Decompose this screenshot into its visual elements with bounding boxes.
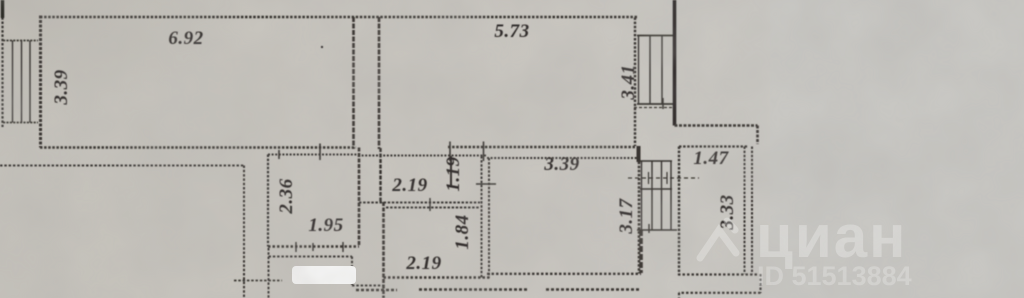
tick window top bottom — [662, 98, 664, 109]
wall loggia right double — [745, 147, 753, 275]
wall vertical x383.5 — [382, 202, 385, 298]
redaction white box — [292, 266, 356, 284]
wall lower-left vertical x352 — [351, 257, 353, 286]
svg-text:6.92: 6.92 — [168, 28, 203, 49]
svg-text:1.19: 1.19 — [443, 156, 464, 191]
wall room 3.39 right — [638, 158, 641, 274]
wall niche 1.19 — [450, 156, 452, 186]
tick door 3.39 left — [476, 183, 496, 185]
tick door corridor top — [450, 142, 484, 162]
wall room 3.39 bottom — [487, 273, 641, 275]
tick door 1.84 top — [429, 198, 431, 211]
wall vertical x380.5 connector — [379, 148, 381, 203]
svg-text:1.84: 1.84 — [452, 214, 473, 249]
svg-text:3.17: 3.17 — [616, 197, 637, 234]
tick window mid bottom — [648, 224, 650, 233]
wall room 2.19 bottom — [384, 276, 491, 278]
speck — [321, 46, 323, 48]
svg-text:1.95: 1.95 — [308, 215, 343, 236]
ticks 1.95 bottom — [296, 242, 343, 252]
watermark cian logo icon — [700, 221, 736, 258]
window top-right mullions — [639, 36, 663, 105]
wall lower-left horizontal y256 — [269, 256, 353, 258]
window left balcony frame — [3, 41, 38, 123]
dim ticks on dashed line — [649, 172, 668, 184]
wall room 1.95 bottom — [268, 245, 359, 247]
svg-text:2.36: 2.36 — [276, 178, 297, 214]
wall middle vertical right line — [378, 17, 381, 149]
wall loggia foot — [679, 274, 761, 298]
window left balcony mullions — [13, 41, 31, 123]
svg-text:ID 51513884: ID 51513884 — [757, 261, 912, 291]
svg-text:3.41: 3.41 — [618, 64, 639, 100]
svg-text:2.19: 2.19 — [391, 175, 427, 196]
svg-text:2.19: 2.19 — [405, 253, 441, 274]
wall stub below window — [639, 230, 643, 273]
wall unit boundary vertical — [243, 166, 245, 298]
wall room bottoms upper line — [40, 146, 637, 149]
tick door 2.36 top — [279, 144, 320, 161]
window top-right lower dash — [634, 107, 674, 109]
wall room 3.39 left double — [482, 156, 490, 278]
wall stub above window — [637, 146, 641, 162]
wall lower floor segment a — [356, 289, 397, 292]
svg-text:3.39: 3.39 — [51, 69, 72, 105]
wall balcony outer left — [1, 0, 3, 127]
wall lower floor segment b — [419, 288, 527, 291]
wall room 1.84 top — [386, 207, 480, 209]
window mid-right frame — [637, 161, 677, 230]
wall loggia 1.47 left — [678, 147, 680, 276]
wall lower-left vertical x268 — [268, 248, 270, 298]
wall L-corner top — [675, 126, 758, 145]
wall lower-left horizontal y285 — [352, 285, 383, 287]
window mid-right mullions — [642, 161, 672, 230]
wall cross ticks line — [234, 280, 282, 282]
svg-text:циан: циан — [756, 203, 907, 270]
svg-text:5.73: 5.73 — [494, 21, 529, 42]
svg-text:1.47: 1.47 — [693, 148, 729, 169]
wall room1 left — [39, 16, 42, 148]
window top-right frame — [637, 36, 675, 105]
wall building edge heavy — [673, 0, 677, 126]
wall loggia 1.47 top — [679, 145, 748, 147]
dim dashed line loggia — [628, 177, 699, 179]
wall top (rooms 1 and 2) — [40, 16, 637, 18]
wall unit boundary horizontal — [0, 165, 244, 167]
wall middle vertical left line — [352, 17, 355, 149]
wall balcony outer left dark stub — [1, 0, 5, 18]
wall corridor bottom jog — [359, 202, 480, 204]
svg-text:3.39: 3.39 — [543, 154, 579, 175]
wall corridor tops lower line — [268, 155, 637, 159]
wall vertical x359 — [358, 148, 361, 246]
wall loggia bottom — [678, 273, 759, 275]
wall room 2.36 left — [267, 155, 269, 247]
wall room2 right — [634, 18, 636, 147]
wall lower floor segment c — [546, 288, 639, 291]
